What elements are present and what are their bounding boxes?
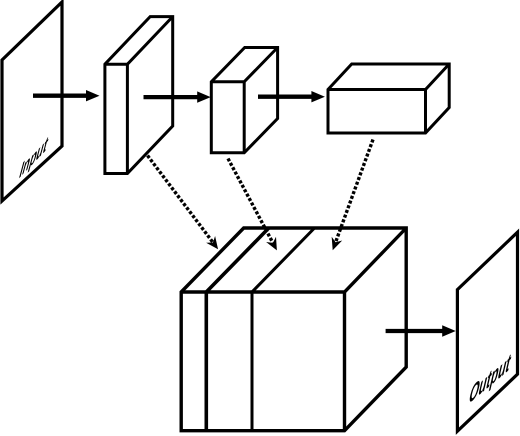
input sheet — [2, 2, 62, 201]
cube divider 2 — [252, 228, 315, 431]
label Output — [466, 346, 514, 410]
dotted arrow box3 to cube — [327, 140, 373, 253]
wire arrow cube to output — [386, 325, 456, 336]
wire arrow input to box1 — [33, 90, 100, 101]
box3 wide flat box — [328, 64, 449, 133]
cube divider 1 — [206, 228, 268, 431]
dotted arrow box1 to cube — [148, 156, 223, 253]
wire arrow box2 to box3 — [258, 91, 325, 102]
cube concatenated feature block — [181, 228, 406, 431]
box1 thin slab — [105, 17, 173, 174]
wire arrow box1 to box2 — [144, 91, 211, 102]
label Input — [17, 130, 51, 184]
dotted arrow box2 to cube — [228, 159, 282, 253]
box2 small box — [211, 48, 277, 153]
output sheet — [457, 232, 517, 431]
